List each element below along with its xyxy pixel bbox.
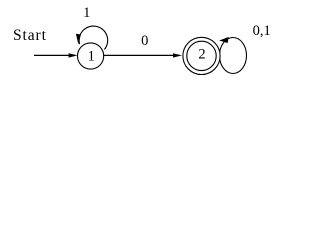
svg-text:Start: Start [13,27,47,44]
self-loop on state 2 [220,38,247,74]
self-loop 1 arrowhead [76,34,81,44]
arrowhead into state 2 [173,53,182,57]
state 2 inner circle [187,41,216,70]
wire state1 to state2 [104,54,174,56]
start arrowhead [69,53,78,57]
state 1 circle [78,43,104,69]
svg-text:0: 0 [141,33,148,49]
start arrow wire [34,54,71,56]
self-loop on state 1 [79,26,108,49]
svg-text:1: 1 [88,49,95,65]
self-loop 2 arrowhead [219,37,229,43]
svg-text:2: 2 [198,47,205,63]
state 2 outer circle [183,37,220,74]
svg-text:1: 1 [83,5,90,21]
svg-text:0,1: 0,1 [253,23,271,39]
